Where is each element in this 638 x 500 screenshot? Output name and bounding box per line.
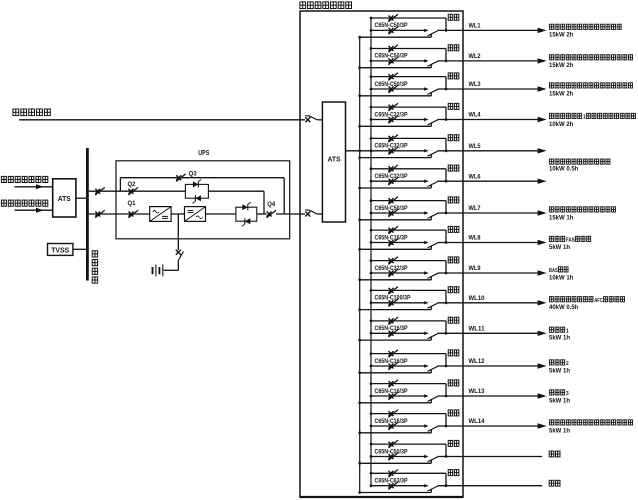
wire: TVSS to bus [73, 248, 86, 250]
breaker QF15 C65N-C50/3P (pole 1) [388, 440, 398, 448]
wire: branch 13 right drop from breaker to output [445, 384, 448, 398]
wire: branch 8 bypass feed from bypass bus [358, 248, 431, 251]
breaker QF2 C65N-C50/3P (pole 1) [388, 45, 398, 53]
breaker QF6 C65N-C32/3P (pole 2) [388, 177, 398, 185]
label 旁路 (bypass) branch 8 [448, 226, 459, 232]
label UPS [198, 148, 209, 157]
label 旁路 (bypass) branch 5 [448, 135, 459, 141]
label 旁路 (bypass) branch 3 [448, 73, 459, 79]
wire: panel ATS output to distribution bus [346, 149, 372, 152]
label 旁路 (bypass) branch 14 [448, 410, 459, 416]
label: load description branch 14 [549, 420, 632, 425]
wire: branch 9 right drop from breaker to output [445, 261, 448, 275]
label 旁路 (bypass) branch 1 [448, 14, 459, 20]
wire: branch 16 output line WL16 [370, 484, 428, 487]
wire: branch 5 outgoing feeder line [438, 148, 547, 153]
switch: branch 8 bypass switch [424, 241, 438, 250]
wire: branch 1 right drop from breaker to output [445, 18, 448, 32]
label 旁路 (bypass) branch 7 [448, 197, 459, 203]
label WL4 [469, 113, 482, 119]
node: third power source label 第三路电源 [13, 109, 50, 116]
svg-text:WL8: WL8 [469, 236, 482, 242]
wire: branch 13 outgoing feeder line [438, 393, 547, 398]
wire: branch 5 breaker feed (top) [370, 137, 446, 140]
label WL13 [469, 389, 486, 395]
switch: panel input from UPS [305, 210, 322, 217]
switch: branch 15 bypass switch [424, 455, 438, 464]
value label C65N-C50/3P [375, 449, 408, 455]
label: load description branch 2 [549, 55, 632, 60]
switch: panel input from third source [305, 116, 322, 123]
wire: branch 3 breaker feed (top) [370, 75, 446, 78]
value label C65N-C16/3P [375, 326, 408, 332]
label: load description branch 3 [549, 83, 632, 88]
value label C65N-C50/3P [375, 206, 408, 212]
svg-text:FAS: FAS [566, 238, 575, 244]
label: load rating branch 2 [549, 63, 574, 69]
svg-text:TVSS: TVSS [51, 248, 69, 255]
wire: UPS output to panel ATS [300, 213, 305, 215]
wire: branch 16 breaker feed (top) [370, 472, 446, 475]
svg-text:5kW 1h: 5kW 1h [549, 336, 570, 342]
breaker QF7 C65N-C50/3P (pole 2) [388, 209, 398, 217]
svg-text:UPS: UPS [198, 148, 209, 157]
switch: branch 11 bypass switch [424, 332, 438, 341]
value label C65N-C16/3P [375, 235, 408, 241]
wire: branch 3 bypass feed from bypass bus [358, 94, 431, 97]
svg-text:C65N-C16/3P: C65N-C16/3P [375, 419, 408, 425]
label WL14 [469, 419, 486, 425]
switch: branch 12 bypass switch [424, 364, 438, 373]
label WL11 [469, 327, 486, 333]
breaker QF1 C65N-C50/3P (pole 1) [388, 14, 398, 22]
wire: branch 8 breaker feed (top) [370, 229, 446, 232]
wire: branch 10 breaker feed (top) [370, 289, 446, 292]
breaker QF3 C65N-C50/3P (pole 2) [388, 85, 398, 93]
wire: branch 5 bypass feed from bypass bus [358, 156, 431, 159]
breaker Q3 (maintenance bypass) [120, 170, 284, 214]
breaker QF11 C65N-C16/3P (pole 2) [388, 330, 398, 338]
switch: branch 13 bypass switch [424, 394, 438, 403]
svg-text:C65N-C16/3P: C65N-C16/3P [375, 389, 408, 395]
wire: branch 11 outgoing feeder line [438, 331, 547, 336]
label: load description branch 1 [549, 24, 621, 29]
breaker QF10 C65N-C100/3P (pole 2) [388, 299, 398, 307]
svg-text:C65N-C32/3P: C65N-C32/3P [375, 174, 408, 180]
wire: branch 1 bypass feed from bypass bus [358, 36, 431, 39]
value label C65N-C100/3P [375, 296, 411, 302]
wire: branch 15 bypass feed from bypass bus [358, 462, 431, 465]
label WL8 [469, 236, 482, 242]
label WL1 [469, 24, 482, 30]
value label C65N-C50/3P [375, 54, 408, 60]
breaker QF2 C65N-C50/3P (pole 2) [388, 57, 398, 65]
svg-text:WL7: WL7 [469, 206, 482, 212]
breaker Q1 [128, 200, 150, 218]
svg-text:Q3: Q3 [189, 170, 197, 177]
wire: branch 11 breaker feed (top) [370, 320, 446, 323]
wire: branch 15 right drop from breaker to output [445, 444, 448, 458]
label 输入电源(备) standby input [1, 200, 47, 206]
label: load rating branch 1 [549, 33, 574, 39]
wire: static switch output drop to main output [208, 191, 264, 214]
label: load rating branch 10 [549, 305, 579, 311]
label WL9 [469, 266, 482, 272]
wire: branch 2 output line WL2 [370, 60, 428, 63]
value label C65N-C32/3P [375, 266, 408, 272]
wire: branch 10 output line WL10 [370, 301, 428, 304]
switch: branch 14 bypass switch [424, 424, 438, 433]
wire: branch 14 right drop from breaker to output [445, 414, 448, 428]
ATS U2 (panel transfer switch) [322, 102, 345, 222]
wire: branch 12 bypass feed from bypass bus [358, 371, 431, 374]
bypass bus (vertical) [359, 37, 361, 492]
breaker QF15 C65N-C50/3P (pole 2) [388, 453, 398, 461]
label 旁路 (bypass) branch 10 [448, 287, 459, 293]
svg-text:C65N-C16/3P: C65N-C16/3P [375, 326, 408, 332]
wire: branch 1 outgoing feeder line [438, 28, 547, 33]
label 输入电源(主) main input [1, 176, 47, 182]
svg-text:Q2: Q2 [128, 181, 136, 188]
value label C65N-C32/3P [375, 174, 408, 180]
svg-text:C65N-C32/3P: C65N-C32/3P [375, 112, 408, 118]
wire: branch 7 output line WL7 [370, 212, 428, 215]
label: load rating branch 3 [549, 91, 574, 97]
breaker Q2 [128, 181, 186, 195]
svg-text:WL14: WL14 [469, 419, 486, 425]
label 旁路 (bypass) branch 16 [448, 470, 459, 476]
wire: branch 7 outgoing feeder line [438, 210, 547, 215]
inverter U5 (=/~) [185, 207, 206, 222]
static switch U3 (bypass thyristor block) [185, 179, 208, 203]
breaker QF16 C65N-C63/3P (pole 1) [388, 470, 398, 478]
svg-text:Q1: Q1 [128, 200, 136, 207]
wire: branch 8 output line WL8 [370, 241, 428, 244]
svg-text:15kW 1h: 15kW 1h [549, 215, 574, 221]
label 智能配电盘系统 panel title [300, 2, 352, 9]
label 旁路 (bypass) branch 12 [448, 350, 459, 356]
label WL5 [469, 144, 482, 150]
wire: branch 14 breaker feed (top) [370, 412, 446, 415]
label: load description branch 6 [549, 159, 610, 164]
wire: branch 1 output line WL1 [370, 29, 428, 32]
wire: branch 12 outgoing feeder line [438, 363, 547, 368]
svg-text:15kW 2h: 15kW 2h [549, 91, 574, 97]
switch: branch 16 bypass switch [424, 484, 438, 493]
wire: branch 12 breaker feed (top) [370, 352, 446, 355]
switch: branch 2 bypass switch [424, 59, 438, 67]
wire: branch 7 right drop from breaker to output [445, 201, 448, 215]
svg-text:3: 3 [566, 391, 569, 397]
label: load rating branch 13 [549, 398, 570, 404]
switch: branch 3 bypass switch [424, 87, 438, 96]
svg-text:1: 1 [566, 328, 569, 334]
breaker QF9 C65N-C32/3P (pole 1) [388, 257, 398, 265]
svg-text:40kW 0.5h: 40kW 0.5h [549, 305, 579, 311]
value label C65N-C50/3P [375, 82, 408, 88]
svg-text:WL1: WL1 [469, 24, 482, 30]
panel enclosure 智能配电盘系统 box [300, 11, 463, 497]
value label C65N-C63/3P [375, 479, 408, 485]
label: load rating branch 6 [549, 166, 579, 172]
svg-text:C65N-C50/3P: C65N-C50/3P [375, 23, 408, 29]
label: load rating branch 8 [549, 245, 570, 251]
label: load description branch 9 [549, 267, 568, 274]
svg-text:10kW 2h: 10kW 2h [549, 122, 574, 128]
svg-text:WL5: WL5 [469, 144, 482, 150]
wire: branch 2 bypass feed from bypass bus [358, 66, 431, 69]
label: load rating branch 11 [549, 336, 570, 342]
svg-text:ATS: ATS [328, 155, 341, 164]
svg-text:15kW 2h: 15kW 2h [549, 33, 574, 39]
label: load description branch 12 [549, 360, 568, 367]
svg-text:1: 1 [583, 115, 586, 121]
switch: bus feeder to UPS rectifier (lower) [89, 210, 131, 218]
breaker QF8 C65N-C16/3P (pole 1) [388, 226, 398, 234]
wire: branch 3 outgoing feeder line [438, 86, 547, 91]
wire: branch 3 output line WL3 [370, 88, 428, 91]
switch: branch 10 bypass switch [424, 301, 438, 310]
svg-text:WL11: WL11 [469, 327, 486, 333]
svg-text:ATS: ATS [58, 194, 71, 203]
label 电源母线 (vertical) [92, 251, 97, 283]
switch: branch 6 bypass switch [424, 180, 438, 189]
breaker QF5 C65N-C32/3P (pole 1) [388, 135, 398, 143]
wire: branch 13 bypass feed from bypass bus [358, 401, 431, 404]
svg-text:BAS: BAS [549, 268, 558, 274]
label 旁路 (bypass) branch 11 [448, 317, 459, 323]
svg-text:5kW 1h: 5kW 1h [549, 368, 570, 374]
breaker Q4 [257, 201, 300, 218]
breaker QF13 C65N-C16/3P (pole 2) [388, 392, 398, 400]
wire: branch 6 breaker feed (top) [370, 167, 446, 170]
wire: branch 6 output line WL6 [370, 180, 428, 183]
breaker QF1 C65N-C50/3P (pole 2) [388, 27, 398, 35]
breaker QF4 C65N-C32/3P (pole 1) [388, 103, 398, 111]
wire: branch 2 outgoing feeder line [438, 58, 547, 63]
switch: branch 4 bypass switch [424, 118, 438, 127]
svg-text:AFC: AFC [594, 298, 603, 304]
wire: branch 11 right drop from breaker to output [445, 321, 448, 335]
label 旁路 (bypass) branch 9 [448, 257, 459, 263]
wire: branch 15 breaker feed (top) [370, 443, 446, 446]
value label C65N-C16/3P [375, 359, 408, 365]
switch: branch 5 bypass switch [424, 149, 438, 158]
wire: branch 14 outgoing feeder line [438, 423, 547, 428]
label: load description branch 10 [549, 297, 624, 304]
wire: branch 6 right drop from breaker to output [445, 169, 448, 183]
breaker QF13 C65N-C16/3P (pole 1) [388, 380, 398, 388]
label WL2 [469, 54, 482, 60]
wire: DC link battery drop [177, 214, 179, 250]
wire: branch 10 bypass feed from bypass bus [358, 308, 431, 311]
wire: branch 9 breaker feed (top) [370, 259, 446, 262]
label: load description branch 8 [549, 236, 590, 243]
wire: branch 9 outgoing feeder line [438, 270, 547, 275]
breaker QF10 C65N-C100/3P (pole 1) [388, 287, 398, 295]
svg-text:5kW 1h: 5kW 1h [549, 245, 570, 251]
svg-text:C65N-C32/3P: C65N-C32/3P [375, 144, 408, 150]
label WL3 [469, 82, 482, 88]
wire: branch 5 output line WL5 [370, 149, 428, 152]
svg-text:WL13: WL13 [469, 389, 486, 395]
breaker QF9 C65N-C32/3P (pole 2) [388, 269, 398, 277]
label 旁路 (bypass) branch 6 [448, 165, 459, 171]
wire: branch 8 outgoing feeder line [438, 240, 547, 245]
wire: branch 7 bypass feed from bypass bus [358, 218, 431, 221]
wire: branch 16 outgoing feeder line [438, 485, 543, 487]
label: load rating branch 9 [549, 275, 574, 281]
wire: branch 2 right drop from breaker to output [445, 49, 448, 63]
wire: main input with arrow into ATS1 [15, 184, 53, 189]
breaker QF3 C65N-C50/3P (pole 1) [388, 73, 398, 81]
wire: branch 15 outgoing feeder line [438, 456, 543, 458]
wire: branch 16 right drop from breaker to output [445, 473, 448, 487]
label 旁路 (bypass) branch 15 [448, 440, 459, 446]
breaker QF11 C65N-C16/3P (pole 1) [388, 317, 398, 325]
svg-text:WL2: WL2 [469, 54, 482, 60]
svg-text:C65N-C50/3P: C65N-C50/3P [375, 206, 408, 212]
svg-text:C65N-C63/3P: C65N-C63/3P [375, 479, 408, 485]
wire: third power source line to panel [19, 119, 305, 121]
svg-text:WL3: WL3 [469, 82, 482, 88]
svg-text:10kW 1h: 10kW 1h [549, 275, 574, 281]
svg-text:C65N-C16/3P: C65N-C16/3P [375, 359, 408, 365]
wire: branch 13 breaker feed (top) [370, 382, 446, 385]
wire: branch 12 right drop from breaker to output [445, 354, 448, 368]
svg-text:5kW 1h: 5kW 1h [549, 398, 570, 404]
breaker QF6 C65N-C32/3P (pole 1) [388, 165, 398, 173]
svg-text:WL10: WL10 [469, 296, 486, 302]
breaker QF4 C65N-C32/3P (pole 2) [388, 116, 398, 124]
value label C65N-C32/3P [375, 144, 408, 150]
wire: branch 9 bypass feed from bypass bus [358, 278, 431, 281]
label: load rating branch 7 [549, 215, 574, 221]
wire: branch 4 breaker feed (top) [370, 106, 446, 109]
wire: ATS1 output to power bus [76, 197, 86, 199]
svg-text:WL12: WL12 [469, 359, 486, 365]
wire: branch 4 outgoing feeder line [438, 117, 547, 122]
value label C65N-C16/3P [375, 419, 408, 425]
wire: rectifier to inverter (DC link) [171, 213, 184, 215]
svg-text:C65N-C50/3P: C65N-C50/3P [375, 449, 408, 455]
wire: branch 4 output line WL4 [370, 118, 428, 121]
TVSS surge suppressor [48, 244, 73, 256]
svg-text:WL4: WL4 [469, 113, 482, 119]
label WL7 [469, 206, 482, 212]
label: load description branch 13 [549, 390, 569, 397]
value label C65N-C32/3P [375, 112, 408, 118]
wire: branch 8 right drop from breaker to output [445, 230, 448, 244]
wire: branch 10 outgoing feeder line [438, 300, 547, 305]
main distribution bus (vertical) [370, 18, 372, 486]
label: load description branch 4 [549, 113, 635, 120]
svg-text:WL6: WL6 [469, 174, 482, 180]
breaker QF14 C65N-C16/3P (pole 1) [388, 410, 398, 418]
label: load rating branch 14 [549, 428, 570, 434]
wire: standby input with arrow into ATS1 [15, 208, 53, 213]
wire: branch 16 bypass feed from bypass bus [358, 491, 431, 494]
switch: battery isolator [176, 250, 184, 270]
battery GB [153, 265, 163, 277]
label 旁路 (bypass) branch 2 [448, 45, 459, 51]
wire: branch 15 output line WL15 [370, 455, 428, 458]
label 旁路 (bypass) branch 4 [448, 103, 459, 109]
value label C65N-C50/3P [375, 23, 408, 29]
svg-text:2: 2 [566, 361, 569, 367]
wire: branch 3 right drop from breaker to output [445, 77, 448, 91]
svg-text:15kW 2h: 15kW 2h [549, 63, 574, 69]
label WL10 [469, 296, 486, 302]
label WL12 [469, 359, 486, 365]
svg-text:C65N-C50/3P: C65N-C50/3P [375, 82, 408, 88]
switch: branch 9 bypass switch [424, 271, 438, 280]
breaker QF14 C65N-C16/3P (pole 2) [388, 422, 398, 430]
value label C65N-C16/3P [375, 389, 408, 395]
label: load rating branch 4 [549, 122, 574, 128]
breaker QF5 C65N-C32/3P (pole 2) [388, 147, 398, 155]
svg-text:C65N-C32/3P: C65N-C32/3P [375, 266, 408, 272]
wire: branch 6 bypass feed from bypass bus [358, 187, 431, 190]
switch: branch 7 bypass switch [424, 211, 438, 220]
label 备用 (spare) [549, 480, 560, 486]
label 旁路 (bypass) branch 13 [448, 380, 459, 386]
ATS U1 (incoming transfer switch) [53, 179, 76, 217]
svg-text:C65N-C16/3P: C65N-C16/3P [375, 235, 408, 241]
wire: branch 14 output line WL14 [370, 425, 428, 428]
wire: branch 4 bypass feed from bypass bus [358, 125, 431, 128]
label 备用 (spare) [549, 451, 560, 457]
wire: branch 14 bypass feed from bypass bus [358, 431, 431, 434]
wire: branch 9 output line WL9 [370, 272, 428, 275]
svg-text:WL9: WL9 [469, 266, 482, 272]
label: load description branch 11 [549, 327, 569, 334]
svg-text:10kW 0.5h: 10kW 0.5h [549, 166, 579, 172]
wire: branch 1 breaker feed (top) [370, 17, 446, 20]
wire: branch 2 breaker feed (top) [370, 47, 446, 50]
breaker QF8 C65N-C16/3P (pole 2) [388, 239, 398, 247]
breaker QF7 C65N-C50/3P (pole 1) [388, 197, 398, 205]
static switch U6 (output thyristor block) [236, 202, 257, 226]
wire: branch 5 right drop from breaker to output [445, 138, 448, 152]
switch: branch 1 bypass switch [424, 29, 438, 38]
label WL6 [469, 174, 482, 180]
wire: branch 4 right drop from breaker to output [445, 107, 448, 121]
wire: branch 13 output line WL13 [370, 395, 428, 398]
label: load description branch 7 [549, 207, 615, 212]
UPS enclosure box [116, 161, 290, 239]
svg-text:C65N-C50/3P: C65N-C50/3P [375, 54, 408, 60]
wire: branch 6 outgoing feeder line [438, 179, 547, 184]
wire: battery lead [164, 269, 179, 271]
power bus bar 电源母线 [86, 148, 89, 281]
wire: branch 10 right drop from breaker to output [445, 290, 448, 304]
wire: inverter to output static switch [206, 213, 236, 215]
wire: branch 7 breaker feed (top) [370, 199, 446, 202]
breaker QF12 C65N-C16/3P (pole 1) [388, 350, 398, 358]
switch: bus feeder to UPS bypass (upper) [89, 187, 131, 195]
rectifier U4 (~/=) [150, 207, 171, 222]
wire: branch 11 output line WL11 [370, 332, 428, 335]
breaker QF12 C65N-C16/3P (pole 2) [388, 362, 398, 370]
svg-text:Q4: Q4 [267, 201, 275, 208]
wire: branch 12 output line WL12 [370, 365, 428, 368]
label: load rating branch 12 [549, 368, 570, 374]
svg-text:5kW 1h: 5kW 1h [549, 428, 570, 434]
wire: branch 11 bypass feed from bypass bus [358, 339, 431, 342]
breaker QF16 C65N-C63/3P (pole 2) [388, 482, 398, 490]
